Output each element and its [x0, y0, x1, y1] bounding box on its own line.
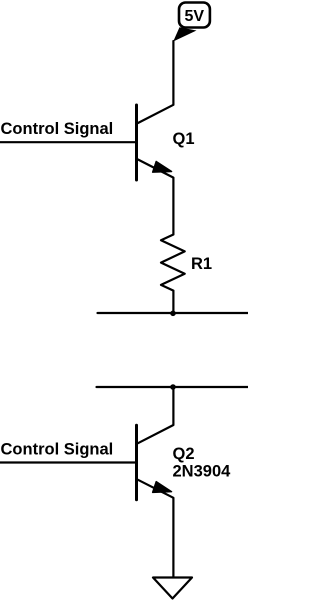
resistor R1	[161, 235, 185, 291]
wire Q1 emitter to R1	[172, 178, 174, 235]
wire Q2 emitter to ground	[172, 498, 174, 578]
transistor Q2	[137, 425, 174, 500]
wire R1 to rail	[172, 291, 174, 313]
ground	[153, 578, 192, 599]
junction node (bottom)	[170, 384, 176, 390]
svg-text:R1: R1	[191, 255, 212, 273]
junction node (top)	[170, 311, 176, 317]
svg-text:5V: 5V	[185, 8, 205, 25]
svg-text:Control Signal: Control Signal	[1, 440, 114, 458]
svg-text:Q2: Q2	[173, 445, 195, 463]
transistor Q1	[137, 105, 174, 180]
rail wire (bottom net)	[97, 386, 249, 388]
base wire Control Signal (top)	[0, 141, 137, 143]
svg-text:Control Signal: Control Signal	[1, 120, 114, 138]
wire rail to Q2 collector	[172, 387, 174, 425]
svg-text:Q1: Q1	[173, 130, 195, 148]
5V callout tail	[173, 27, 196, 41]
5V supply callout box	[179, 3, 210, 28]
wire 5V to Q1 collector	[172, 41, 174, 105]
rail wire (top net)	[98, 312, 249, 314]
svg-text:2N3904: 2N3904	[173, 463, 232, 481]
base wire Control Signal (bottom)	[0, 461, 137, 463]
